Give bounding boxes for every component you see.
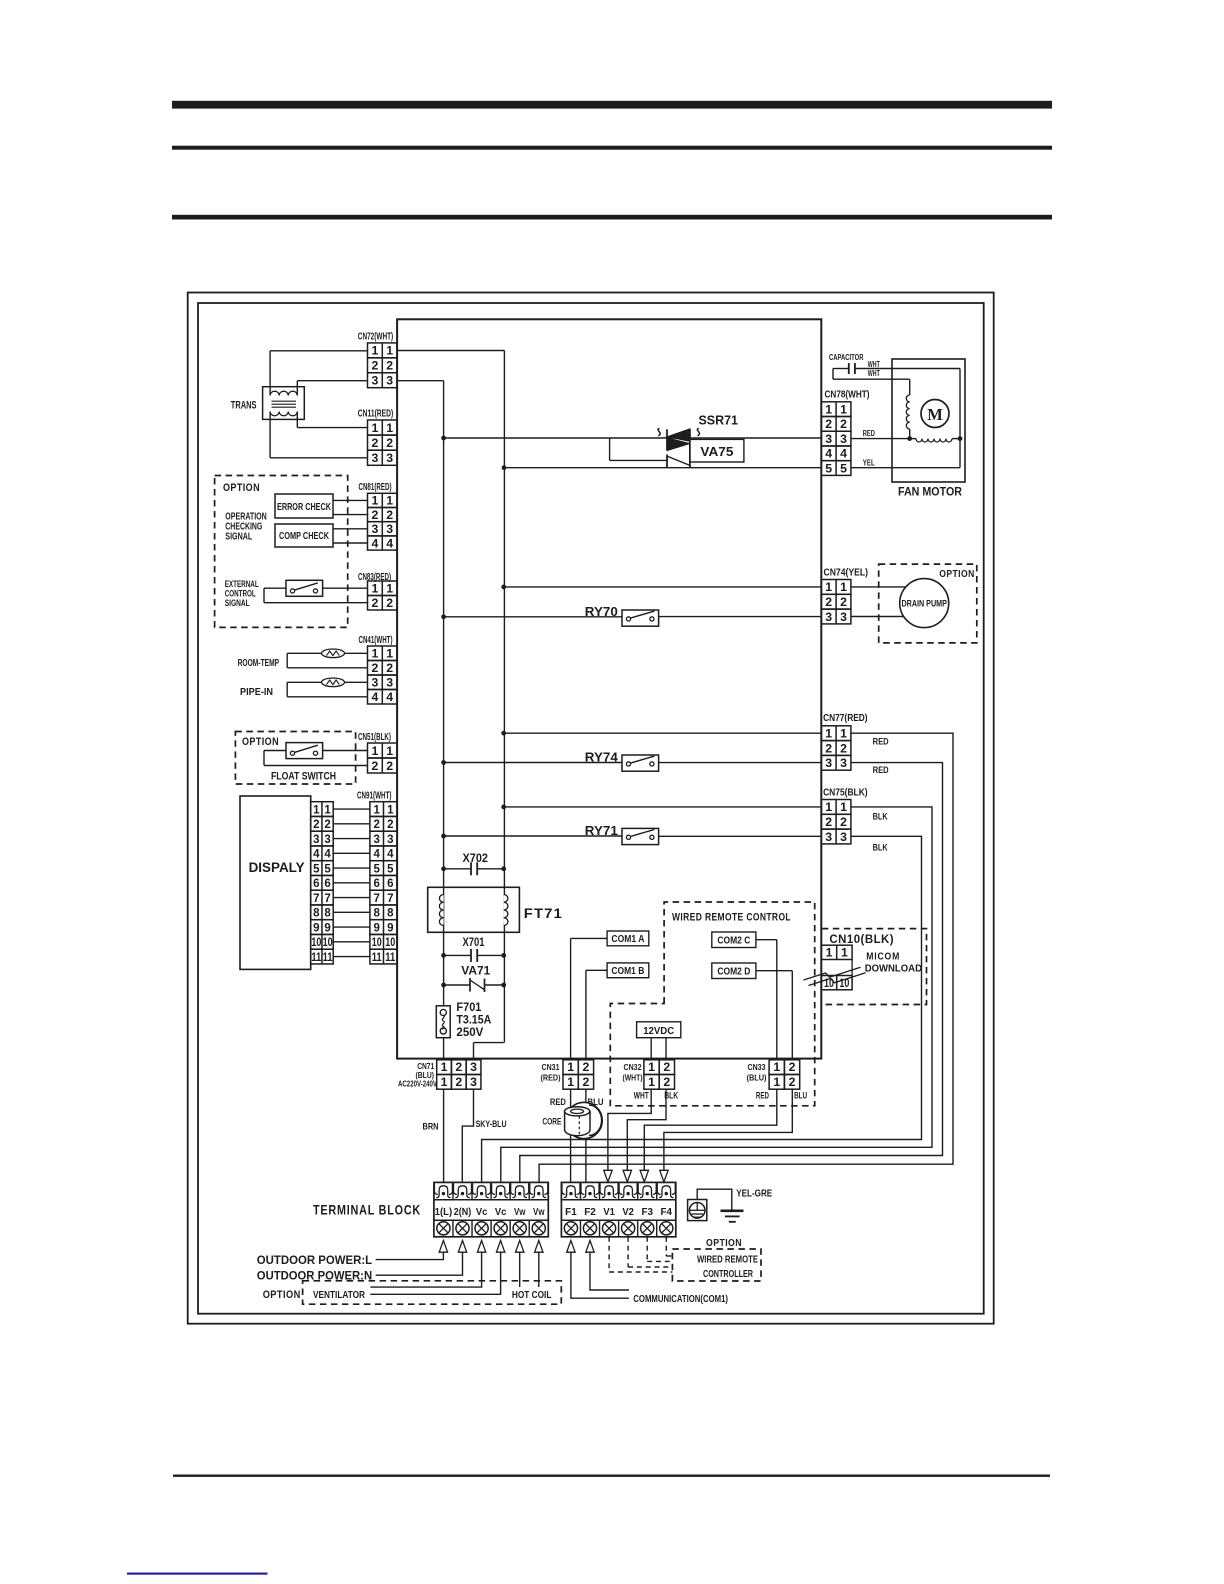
thermistor ROOM-TEMP loop: [287, 652, 367, 654]
page bottom rule: [173, 1475, 1050, 1477]
svg-text:M: M: [927, 405, 943, 424]
svg-text:1: 1: [825, 402, 832, 416]
svg-text:3: 3: [373, 834, 379, 846]
transformer TRANS: [263, 387, 305, 420]
dashed box WIRED REMOTE CONTROL: [610, 902, 814, 1106]
svg-text:1: 1: [386, 421, 393, 435]
svg-text:OPTION: OPTION: [939, 568, 974, 580]
page rule bar 2: [172, 146, 1052, 150]
arrows into V1 V2 F3 F4: [604, 1170, 612, 1182]
svg-text:(BLU): (BLU): [747, 1073, 767, 1083]
svg-text:CN32: CN32: [624, 1062, 642, 1072]
svg-text:OPTION: OPTION: [223, 482, 260, 494]
relay RY70: [444, 616, 622, 618]
terminal block right F1 F2 V1 V2 F3 F4: [561, 1182, 675, 1236]
svg-text:T3.15A: T3.15A: [456, 1015, 491, 1027]
svg-text:MICOM: MICOM: [866, 950, 900, 962]
svg-text:2: 2: [386, 436, 393, 450]
svg-text:2: 2: [324, 819, 330, 831]
display side connector: [311, 802, 334, 817]
svg-text:DRAIN PUMP: DRAIN PUMP: [901, 599, 947, 609]
svg-text:WHT: WHT: [868, 360, 880, 369]
svg-text:3: 3: [371, 451, 378, 465]
svg-text:5: 5: [825, 461, 832, 475]
box COM2 D: [712, 963, 756, 979]
svg-text:3: 3: [470, 1060, 477, 1074]
wire bus B to CN75 pin1: [504, 806, 822, 808]
svg-text:6: 6: [313, 878, 319, 890]
svg-text:HOT COIL: HOT COIL: [512, 1289, 552, 1301]
svg-text:SSR71: SSR71: [699, 413, 739, 428]
page rule bar 1: [172, 101, 1052, 109]
svg-text:1: 1: [371, 647, 378, 661]
svg-text:F701: F701: [456, 1002, 482, 1014]
svg-text:VA75: VA75: [700, 444, 733, 459]
svg-text:F4: F4: [661, 1207, 673, 1218]
svg-text:2: 2: [583, 1060, 590, 1074]
svg-text:4: 4: [371, 690, 378, 704]
svg-text:CN75(BLK): CN75(BLK): [823, 786, 868, 798]
svg-text:2: 2: [455, 1060, 462, 1074]
svg-text:9: 9: [387, 922, 393, 934]
svg-text:2: 2: [387, 819, 393, 831]
svg-text:CAPACITOR: CAPACITOR: [829, 352, 864, 362]
wires CN74 to drain pump: [851, 586, 906, 588]
svg-text:SIGNAL: SIGNAL: [225, 598, 250, 609]
diagram outer border: [188, 293, 994, 1324]
wire CN33 pin2 BLU to F4 arrow: [664, 1089, 792, 1170]
svg-text:4: 4: [373, 849, 380, 861]
svg-text:3: 3: [387, 834, 393, 846]
svg-text:BLK: BLK: [873, 843, 888, 854]
svg-text:3: 3: [840, 830, 847, 844]
box COMP CHECK: [275, 524, 333, 547]
svg-text:ROOM-TEMP: ROOM-TEMP: [238, 658, 280, 669]
svg-text:CN11(RED): CN11(RED): [358, 409, 393, 420]
thermistor PIPE-IN loop: [287, 681, 367, 683]
svg-text:YEL-GRE: YEL-GRE: [736, 1187, 772, 1199]
svg-text:Vc: Vc: [476, 1207, 488, 1218]
svg-text:BLK: BLK: [873, 811, 888, 822]
fan motor box FAN MOTOR: [892, 359, 965, 482]
svg-text:2: 2: [386, 359, 393, 373]
svg-text:2: 2: [663, 1060, 670, 1074]
main PCB box: [397, 319, 821, 1058]
svg-text:250V: 250V: [456, 1027, 483, 1039]
break mark micom pins: [804, 967, 861, 980]
svg-text:WIRED REMOTE: WIRED REMOTE: [697, 1254, 758, 1265]
svg-text:COM1 B: COM1 B: [611, 966, 644, 977]
wire OUTDOOR POWER L: [376, 1252, 444, 1259]
svg-text:WHT: WHT: [868, 369, 880, 378]
svg-text:2(N): 2(N): [454, 1207, 472, 1218]
box ERROR CHECK: [275, 494, 333, 518]
svg-text:RED: RED: [863, 428, 875, 438]
svg-text:CN33: CN33: [748, 1062, 766, 1072]
svg-text:PIPE-IN: PIPE-IN: [240, 687, 273, 698]
svg-text:ERROR CHECK: ERROR CHECK: [277, 502, 331, 513]
svg-text:1: 1: [441, 1060, 448, 1074]
svg-text:7: 7: [313, 893, 319, 905]
earth terminal YEL-GRE: [688, 1200, 707, 1221]
wire TRANS secondary to CN11 pin1: [296, 412, 298, 428]
svg-text:11: 11: [323, 952, 333, 964]
svg-text:10: 10: [323, 937, 333, 949]
svg-text:3: 3: [825, 756, 832, 770]
svg-text:FAN MOTOR: FAN MOTOR: [898, 487, 963, 499]
svg-text:1: 1: [324, 804, 331, 816]
svg-text:3: 3: [825, 432, 832, 446]
svg-text:1: 1: [387, 804, 394, 816]
wire TRANS primary to CN72 pin3: [296, 381, 298, 396]
svg-text:CONTROLLER: CONTROLLER: [703, 1269, 753, 1280]
svg-text:Vw: Vw: [514, 1207, 526, 1218]
dashed OPTION box operation checking signal: [215, 476, 348, 628]
switch float switch: [323, 750, 368, 752]
svg-text:1: 1: [840, 580, 847, 594]
svg-text:4: 4: [313, 849, 320, 861]
svg-text:RED: RED: [756, 1091, 769, 1102]
svg-text:(BLU): (BLU): [416, 1070, 435, 1080]
wire COM1 A to CN31 pin1: [571, 937, 608, 939]
svg-text:1: 1: [386, 744, 393, 758]
svg-text:1: 1: [313, 804, 320, 816]
svg-text:2: 2: [840, 417, 847, 431]
wire to ground symbol: [697, 1189, 732, 1211]
wire TRANS primary to CN72 pin1: [269, 351, 271, 396]
svg-text:10: 10: [372, 937, 382, 949]
svg-text:6: 6: [324, 878, 330, 890]
svg-text:5: 5: [840, 461, 847, 475]
svg-text:YEL: YEL: [863, 457, 875, 467]
dashed OPTION box float switch: [235, 732, 355, 785]
svg-text:CN77(RED): CN77(RED): [823, 712, 868, 724]
svg-text:6: 6: [373, 878, 379, 890]
dashed OPTION box ventilator hot coil: [303, 1281, 562, 1304]
diagram inner border: [198, 303, 984, 1314]
svg-text:2: 2: [386, 661, 393, 675]
line filter FT71: [428, 887, 520, 932]
svg-text:2: 2: [371, 596, 378, 610]
svg-text:2: 2: [371, 759, 378, 773]
svg-text:DOWNLOAD: DOWNLOAD: [865, 963, 923, 975]
svg-text:8: 8: [373, 908, 380, 920]
svg-text:7: 7: [373, 893, 379, 905]
svg-text:TERMINAL BLOCK: TERMINAL BLOCK: [313, 1203, 421, 1218]
wire bus B jog to CN71 pin3: [474, 1042, 504, 1044]
svg-text:11: 11: [311, 952, 321, 964]
svg-text:2: 2: [663, 1075, 670, 1089]
wire CN75 pin1 to terminal Vc2: [501, 807, 932, 1183]
svg-text:2: 2: [371, 661, 378, 675]
svg-text:3: 3: [386, 676, 393, 690]
relay RY74: [444, 762, 622, 764]
svg-text:WHT: WHT: [634, 1091, 649, 1102]
svg-text:CN74(YEL): CN74(YEL): [824, 567, 869, 579]
wire CN71 pin1 BRN to terminal 1L: [443, 1089, 445, 1182]
svg-text:RED: RED: [550, 1097, 566, 1108]
svg-text:9: 9: [324, 922, 330, 934]
svg-text:1: 1: [648, 1060, 655, 1074]
svg-text:OPTION: OPTION: [242, 736, 279, 748]
svg-text:3: 3: [371, 676, 378, 690]
svg-text:COMP CHECK: COMP CHECK: [279, 531, 329, 542]
switch external control: [323, 587, 368, 589]
svg-text:1: 1: [386, 582, 393, 596]
wire CN32 pin1 WHT to V1 arrow: [608, 1089, 651, 1170]
wire capacitor left branch: [833, 368, 849, 370]
svg-text:V1: V1: [603, 1207, 615, 1218]
svg-text:OUTDOOR POWER:L: OUTDOOR POWER:L: [257, 1253, 372, 1267]
svg-text:2: 2: [371, 436, 378, 450]
svg-text:1: 1: [567, 1060, 574, 1074]
svg-text:RY71: RY71: [585, 824, 618, 838]
svg-text:11: 11: [385, 952, 395, 964]
box COM1 B: [607, 963, 649, 978]
wires communication F1 F2: [590, 1252, 629, 1290]
wire CN33 pin1 RED to F3 arrow: [644, 1089, 777, 1170]
wire COM1 B to CN31 pin2: [586, 969, 607, 971]
relay RY71: [444, 835, 622, 837]
box 12VDC: [637, 1022, 681, 1038]
svg-text:RY74: RY74: [585, 750, 618, 764]
svg-text:AC220V-240V: AC220V-240V: [398, 1079, 437, 1088]
box COM1 A: [607, 931, 649, 946]
svg-text:F1: F1: [565, 1207, 577, 1218]
svg-text:10: 10: [385, 937, 395, 949]
svg-text:1: 1: [825, 727, 832, 741]
svg-text:3: 3: [386, 374, 393, 388]
svg-text:1: 1: [648, 1075, 655, 1089]
box COM2 C: [712, 932, 756, 948]
svg-text:5: 5: [313, 863, 320, 875]
wire CN31 pin2 BLU to terminal F2: [585, 1089, 587, 1182]
svg-text:4: 4: [324, 849, 331, 861]
dashed wires to wired remote controller: [608, 1237, 610, 1272]
svg-text:4: 4: [840, 447, 847, 461]
svg-text:2: 2: [455, 1075, 462, 1089]
wire CN32 pin2 BLK to V2 arrow: [627, 1089, 666, 1170]
svg-text:1: 1: [826, 946, 833, 960]
wire CN78 pin3 RED to motor junction: [851, 438, 910, 440]
svg-text:Vw: Vw: [533, 1207, 545, 1218]
wire CN72 pin3 to mid vertical bus A: [397, 380, 444, 382]
wire TRANS secondary to CN11 pin3: [269, 412, 271, 458]
svg-text:5: 5: [373, 863, 380, 875]
svg-text:RED: RED: [873, 737, 889, 748]
svg-text:3: 3: [840, 610, 847, 624]
wire lower rail to CN78 pin5: [504, 467, 822, 469]
motor main winding coil: [910, 438, 916, 440]
wire COM2 D to CN33 pin2: [756, 970, 792, 972]
svg-text:CN72(WHT): CN72(WHT): [358, 332, 393, 343]
drain pump motor DRAIN PUMP: [900, 579, 949, 628]
svg-text:F3: F3: [641, 1207, 653, 1218]
svg-text:1: 1: [371, 494, 378, 508]
svg-text:7: 7: [324, 893, 330, 905]
dashed box MICOM DOWNLOAD: [822, 929, 927, 1005]
svg-text:3: 3: [313, 834, 319, 846]
svg-text:F2: F2: [584, 1207, 596, 1218]
svg-text:DISPALY: DISPALY: [249, 860, 305, 875]
svg-text:2: 2: [825, 815, 832, 829]
motor M circle: [921, 400, 949, 428]
svg-text:1: 1: [373, 804, 380, 816]
svg-text:1: 1: [841, 946, 848, 960]
svg-text:2: 2: [583, 1075, 590, 1089]
svg-text:3: 3: [371, 374, 378, 388]
svg-text:2: 2: [373, 819, 379, 831]
svg-text:1: 1: [441, 1075, 448, 1089]
svg-text:V2: V2: [622, 1207, 634, 1218]
wires display to CN91: [333, 808, 370, 810]
svg-text:3: 3: [470, 1075, 477, 1089]
svg-text:4: 4: [386, 536, 393, 550]
svg-text:8: 8: [387, 908, 394, 920]
svg-text:RY70: RY70: [585, 605, 618, 619]
svg-text:4: 4: [387, 849, 394, 861]
wires 12VDC to CN32: [650, 1038, 652, 1060]
svg-text:7: 7: [387, 893, 393, 905]
svg-text:1: 1: [386, 647, 393, 661]
svg-text:CN10(BLK): CN10(BLK): [829, 932, 894, 946]
svg-text:9: 9: [313, 922, 319, 934]
blue footer line: [127, 1573, 268, 1575]
svg-text:SKY-BLU: SKY-BLU: [476, 1119, 507, 1130]
svg-text:5: 5: [324, 863, 331, 875]
svg-text:3: 3: [324, 834, 330, 846]
svg-text:RED: RED: [873, 765, 889, 776]
svg-text:2: 2: [386, 508, 393, 522]
svg-text:8: 8: [313, 908, 320, 920]
svg-text:OPTION: OPTION: [706, 1237, 742, 1249]
svg-text:VA71: VA71: [461, 965, 491, 977]
wire capacitor right to motor frame: [855, 368, 960, 370]
wire CN78 pin5 YEL to motor frame: [851, 467, 960, 469]
dashed box WIRED REMOTE CONTROLLER: [672, 1249, 761, 1281]
svg-text:2: 2: [386, 596, 393, 610]
svg-text:1: 1: [840, 727, 847, 741]
varistor VA75 branch: [609, 438, 611, 460]
svg-text:1: 1: [773, 1060, 780, 1074]
svg-text:8: 8: [324, 908, 331, 920]
svg-text:2: 2: [789, 1075, 796, 1089]
svg-text:2: 2: [825, 595, 832, 609]
fuse F701 T3.15A 250V: [436, 1006, 450, 1038]
svg-text:FLOAT SWITCH: FLOAT SWITCH: [271, 771, 336, 783]
svg-text:9: 9: [373, 922, 379, 934]
wire bus B to CN77 pin1: [504, 732, 822, 734]
wire COM2 C to CN33 pin1: [756, 939, 777, 941]
svg-text:4: 4: [825, 447, 832, 461]
page rule bar 3: [172, 215, 1052, 220]
svg-text:4: 4: [371, 536, 378, 550]
wire CN31 pin1 RED to terminal F1: [570, 1089, 572, 1182]
wire CN77 pin1 to terminal Vw2: [539, 733, 953, 1182]
svg-text:1: 1: [773, 1075, 780, 1089]
wires hot coil terminals Vw: [519, 1252, 521, 1287]
svg-text:WIRED REMOTE CONTROL: WIRED REMOTE CONTROL: [672, 912, 791, 924]
svg-text:2: 2: [789, 1060, 796, 1074]
svg-text:10: 10: [311, 937, 321, 949]
svg-text:BLU: BLU: [794, 1091, 807, 1102]
svg-text:CN51(BLK): CN51(BLK): [358, 732, 391, 743]
svg-text:COM2 C: COM2 C: [717, 936, 750, 947]
svg-text:2: 2: [840, 595, 847, 609]
svg-text:3: 3: [840, 432, 847, 446]
wire CN71 pin3 SKY-BLU to terminal 2N: [462, 1089, 473, 1182]
svg-text:COM2 D: COM2 D: [717, 967, 750, 978]
svg-text:3: 3: [825, 610, 832, 624]
svg-text:FT71: FT71: [524, 905, 563, 921]
wire SSR top rail to CN78 pin3: [444, 437, 822, 439]
svg-text:1: 1: [825, 580, 832, 594]
svg-text:VENTILATOR: VENTILATOR: [313, 1289, 365, 1301]
dashed OPTION box drain pump: [879, 564, 977, 643]
svg-text:1: 1: [371, 421, 378, 435]
svg-text:6: 6: [387, 878, 393, 890]
svg-text:2: 2: [840, 741, 847, 755]
svg-text:3: 3: [840, 756, 847, 770]
wire bus B to CN74 pin1: [504, 586, 822, 588]
svg-text:X701: X701: [463, 937, 485, 949]
svg-text:TRANS: TRANS: [231, 400, 257, 412]
svg-text:4: 4: [386, 690, 393, 704]
wires ERROR/COMP CHECK to CN81: [333, 499, 368, 501]
svg-text:5: 5: [387, 863, 394, 875]
svg-text:2: 2: [386, 759, 393, 773]
svg-text:CN78(WHT): CN78(WHT): [825, 390, 870, 401]
svg-text:2: 2: [371, 359, 378, 373]
svg-text:2: 2: [313, 819, 319, 831]
wire CN75 pin3 to terminal Vc1: [482, 836, 922, 1182]
svg-text:3: 3: [386, 522, 393, 536]
svg-text:10: 10: [824, 976, 834, 990]
motor aux winding coil: [906, 395, 909, 429]
svg-text:Vc: Vc: [495, 1207, 507, 1218]
svg-text:CN91(WHT): CN91(WHT): [357, 791, 392, 802]
varistor VA75 label box: [690, 439, 744, 462]
svg-text:OPTION: OPTION: [263, 1289, 301, 1301]
svg-text:1: 1: [825, 800, 832, 814]
svg-text:12VDC: 12VDC: [643, 1025, 674, 1037]
svg-text:BRN: BRN: [423, 1122, 439, 1133]
svg-text:1: 1: [567, 1075, 574, 1089]
svg-text:CN81(RED): CN81(RED): [359, 482, 392, 493]
svg-text:1: 1: [840, 800, 847, 814]
svg-text:X702: X702: [463, 853, 489, 865]
terminal block left 1L 2N Vc Vc Vw Vw: [434, 1182, 548, 1236]
svg-text:1: 1: [371, 344, 378, 358]
wire OUTDOOR POWER N: [376, 1252, 463, 1275]
display unit box DISPALY: [240, 796, 311, 969]
ground symbol: [721, 1210, 744, 1213]
svg-text:2: 2: [840, 815, 847, 829]
svg-text:CN41(WHT): CN41(WHT): [359, 635, 393, 646]
svg-text:1: 1: [386, 494, 393, 508]
svg-text:CORE: CORE: [542, 1117, 561, 1127]
svg-text:CN31: CN31: [542, 1062, 560, 1072]
svg-text:COM1 A: COM1 A: [611, 934, 644, 945]
wire CN77 pin3 to terminal Vw1: [520, 763, 943, 1183]
svg-text:1: 1: [371, 744, 378, 758]
svg-text:SIGNAL: SIGNAL: [225, 532, 252, 543]
triac SSR71: [667, 429, 690, 442]
svg-text:1: 1: [371, 582, 378, 596]
svg-text:2: 2: [371, 508, 378, 522]
wires ventilator to terminals Vc: [370, 1252, 481, 1287]
svg-text:COMMUNICATION(COM1): COMMUNICATION(COM1): [633, 1293, 728, 1305]
